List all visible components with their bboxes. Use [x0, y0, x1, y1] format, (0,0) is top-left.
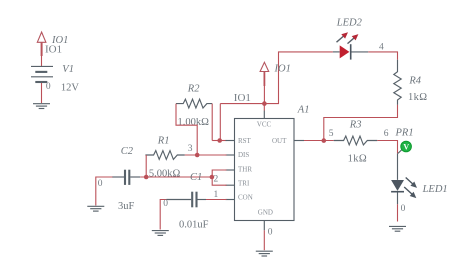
svg-text:IO1: IO1: [274, 63, 291, 74]
svg-text:V1: V1: [62, 64, 74, 75]
junction node 5: [322, 138, 327, 143]
svg-text:A1: A1: [297, 105, 310, 116]
svg-text:1.00kΩ: 1.00kΩ: [178, 117, 210, 128]
capacitor C1: [167, 192, 207, 208]
pin TRI stub: [226, 184, 235, 186]
svg-text:0.01uF: 0.01uF: [179, 220, 209, 231]
wire VCC rail riser: [219, 104, 221, 141]
svg-text:2: 2: [214, 175, 219, 185]
pin GND stub: [263, 221, 265, 231]
LED2 emission arrows: [337, 32, 359, 43]
wire node 2 to TRI: [212, 177, 226, 185]
LED1 emission arrows: [404, 178, 417, 199]
connector IO1 (top-left): [37, 32, 46, 56]
wire R4 bottom to node 5: [324, 105, 398, 141]
svg-text:OUT: OUT: [272, 137, 287, 145]
wire R2 right down: [211, 104, 213, 141]
pin THR stub: [226, 169, 235, 171]
svg-text:3: 3: [188, 144, 193, 154]
connector IO1 (above IC): [260, 62, 269, 86]
wire LED1 to ground: [397, 204, 399, 221]
wire node 2 to THR: [212, 170, 226, 177]
svg-text:0: 0: [98, 179, 103, 189]
ground (IC): [256, 251, 273, 256]
svg-text:IO1: IO1: [234, 92, 251, 104]
wire OUT to node 5: [304, 140, 334, 142]
svg-text:6: 6: [384, 129, 389, 139]
wire R1 right to DIS: [185, 154, 227, 156]
svg-text:PR1: PR1: [395, 127, 414, 138]
wire IO1 to rail: [263, 74, 265, 104]
timer IC A1 (555): [235, 119, 295, 221]
wire C1 left to ground: [160, 200, 166, 230]
probe PR1: [398, 141, 411, 153]
pin CON stub: [226, 199, 235, 201]
svg-text:R3: R3: [349, 119, 362, 130]
wire VCC rail top to LED2: [220, 52, 333, 104]
svg-text:4: 4: [379, 43, 384, 53]
resistor R2: [176, 99, 212, 108]
svg-text:GND: GND: [258, 209, 273, 217]
svg-text:5: 5: [329, 129, 334, 139]
wire C2 left to ground: [96, 177, 113, 206]
svg-text:TRI: TRI: [238, 179, 250, 187]
svg-text:12V: 12V: [61, 83, 80, 94]
svg-text:RST: RST: [238, 137, 252, 145]
capacitor C2: [112, 170, 140, 185]
svg-text:R4: R4: [408, 76, 421, 87]
wire IO1 to battery: [41, 44, 43, 66]
svg-text:THR: THR: [238, 165, 252, 173]
svg-text:5.00kΩ: 5.00kΩ: [149, 168, 181, 179]
resistor R1: [145, 151, 184, 160]
junction C2/R1: [144, 175, 149, 180]
pin VCC stub: [263, 111, 265, 119]
svg-text:C1: C1: [190, 172, 202, 183]
wire battery to ground: [41, 83, 43, 103]
resistor R3: [334, 136, 378, 145]
svg-text:V: V: [403, 143, 409, 152]
junction node 3: [195, 153, 200, 158]
svg-text:VCC: VCC: [257, 121, 272, 129]
wire C2 right to node 2: [140, 176, 212, 178]
svg-text:3uF: 3uF: [118, 201, 135, 212]
svg-text:LED1: LED1: [422, 184, 448, 195]
svg-text:DIS: DIS: [238, 151, 249, 159]
svg-text:LED2: LED2: [336, 17, 363, 28]
junction RST node: [217, 138, 222, 143]
svg-text:1kΩ: 1kΩ: [408, 92, 428, 103]
svg-text:0: 0: [401, 204, 406, 214]
wire R3 right to LED1: [377, 141, 397, 154]
LED1 diode: [391, 153, 404, 204]
battery V1: [31, 66, 53, 82]
ground (LED1): [389, 226, 406, 231]
svg-text:0: 0: [268, 227, 273, 237]
svg-text:R1: R1: [157, 136, 170, 147]
wire R1 left down: [145, 155, 147, 177]
svg-text:1kΩ: 1kΩ: [348, 154, 368, 165]
wire node RST horizontal: [212, 140, 226, 142]
svg-text:C2: C2: [121, 146, 134, 157]
svg-text:1: 1: [214, 190, 219, 200]
svg-text:CON: CON: [238, 193, 253, 201]
LED2 diode: [333, 44, 368, 59]
svg-text:R2: R2: [187, 83, 200, 94]
pin OUT stub: [294, 140, 304, 142]
svg-text:0: 0: [163, 199, 168, 209]
ground (battery): [33, 104, 50, 109]
ground (C2): [87, 206, 104, 211]
resistor R4: [394, 60, 401, 105]
pin RST stub: [226, 140, 235, 142]
junction VCC rail: [262, 101, 267, 106]
ground (C1): [152, 231, 169, 236]
wire LED2 to R4: [368, 52, 397, 60]
wire R2 left to node 3: [176, 104, 197, 155]
junction node 2: [210, 175, 215, 180]
wire IC GND to ground: [263, 230, 265, 250]
pin DIS stub: [226, 154, 235, 156]
wire C1 right to CON: [206, 199, 227, 201]
svg-text:0: 0: [46, 82, 51, 92]
svg-text:IO1: IO1: [45, 44, 62, 56]
